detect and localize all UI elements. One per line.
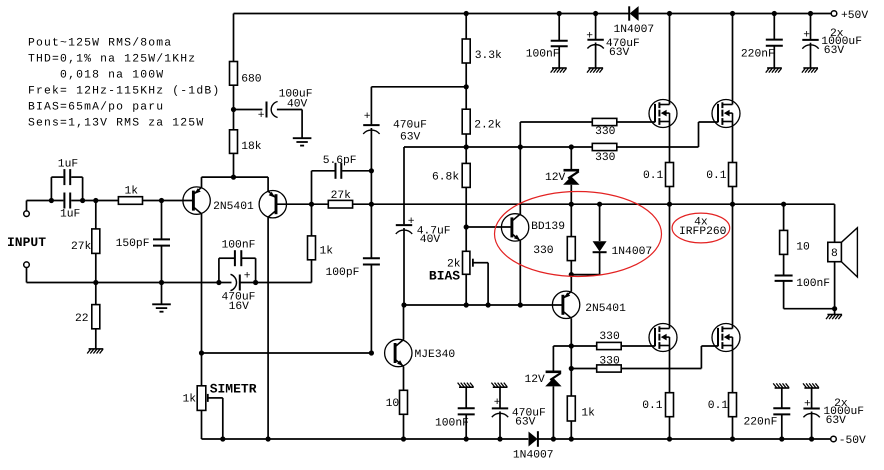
svg-text:Sens=1,13V RMS za 125W: Sens=1,13V RMS za 125W [28,117,204,129]
svg-text:2.2k: 2.2k [474,119,501,132]
wire: 1k to -50V rail [570,421,572,439]
svg-text:+: + [494,397,501,409]
svg-text:27k: 27k [331,189,352,202]
node: NFB caps left [216,280,221,285]
resistor 2.2k [462,109,470,134]
ground (22R) [89,348,104,350]
wire: 18k to emitter rail [233,153,235,177]
diode 1N4007 (limiter) [599,204,601,241]
capacitor 470uF 63V (bootstrap) [370,87,372,125]
wire: MJE340 emitter to 10R [403,366,405,390]
node: MJE340 10R on rail [401,436,406,441]
wire: riser to upper 330 (gate M1) [519,122,521,147]
node: 220nF on -50V rail [779,436,784,441]
svg-text:100pF: 100pF [326,267,360,279]
node: emitter rail / 18k [231,175,236,180]
wire: Q2 emitter [267,177,269,191]
wire: input signal line [27,200,64,202]
ground (220nF bottom) [775,387,790,389]
ground (1000uF bottom) [804,387,819,389]
svg-text:+: + [364,111,371,123]
wire: input return / NFB shunt line [27,282,219,284]
wire: 6.8k to BD139 base node [465,187,467,251]
svg-text:1N4007: 1N4007 [612,246,653,258]
transistor Q2 2N5401 (feedback) [259,191,286,218]
mosfet M1 IRFP260 (upper left) [669,14,671,105]
resistor 0.1 (M4 source) [729,393,737,417]
diode D3 1N4007 in -50V rail [529,432,538,447]
wire: BD139 collector [519,147,521,215]
wire: NFB line to caps [256,282,312,284]
resistor 330 (gate M1) [592,118,617,125]
mosfet M4 IRFP260 (lower right) [732,204,734,328]
resistor 1k (series input) [118,197,142,205]
svg-text:5.6pF: 5.6pF [323,155,357,167]
node: MJE340 collector / 4.7uF [401,302,406,307]
transistor MJE340 (VAS) [385,339,412,366]
wire: +50V top rail (right segment to terminal) [639,13,832,15]
resistor 6.8k [465,147,467,163]
node: feedback node (Q2 base) [309,202,314,207]
svg-text:INPUT: INPUT [7,235,46,250]
svg-text:2N5401: 2N5401 [213,201,254,213]
resistor 10 (MJE340 emitter) [400,390,408,414]
node: lower gate line A [569,343,574,348]
svg-text:1N4007: 1N4007 [614,24,655,36]
capacitor 4.7uF 40V [396,224,412,226]
svg-text:0.1: 0.1 [706,170,727,182]
resistor 10 (zobel) [783,204,785,230]
svg-text:+: + [804,399,811,411]
svg-text:470uF: 470uF [393,119,427,131]
node: 470uF top on rail [593,11,598,16]
terminal input lower [24,262,30,268]
wire: Q2 base to feedback node [276,203,311,205]
node: 680/18k/100uF junction [231,107,236,112]
svg-text:1N4007: 1N4007 [513,450,554,462]
capacitor 100nF (parallel with 470uF NFB) [218,258,220,282]
node: comp cap / MJE340 base [369,350,374,355]
terminal +50V [831,11,837,17]
svg-text:+: + [803,30,810,42]
svg-text:680: 680 [241,74,262,86]
capacitor 1uF (upper of parallel pair) [50,177,52,200]
node: 470uF on -50V rail [497,436,502,441]
svg-text:0,018 na 100W: 0,018 na 100W [28,69,164,81]
svg-text:63V: 63V [824,45,845,57]
node: zener2 on rail [551,436,556,441]
capacitor 470uF 16V (NFB, in line) [219,282,232,284]
wire: upper input terminal to signal line [26,201,28,211]
capacitor 2x1000uF 63V (-50V) [811,388,813,408]
node: bootstrap junction [464,84,469,89]
wire: 2.2k to rail147 [465,134,467,147]
svg-text:BIAS=65mA/po paru: BIAS=65mA/po paru [28,100,164,113]
node: NFB caps right [253,280,258,285]
capacitor 100uF 40V (decoupling) [234,109,263,111]
svg-text:+: + [258,110,265,122]
node: 22R top [93,280,98,285]
svg-text:2N5401: 2N5401 [585,303,626,315]
svg-text:Frek= 12Hz-115KHz (-1dB): Frek= 12Hz-115KHz (-1dB) [28,84,220,97]
red ellipse (limiter highlight) [495,192,662,277]
transistor Q4 2N5401 (driver) [570,275,572,292]
svg-text:330: 330 [599,331,620,343]
wire: zobel bottom to speaker ground [784,308,835,310]
node: 1000uF top on rail [808,11,813,16]
capacitor 5.6pF (across 27k) [311,171,313,204]
svg-text:27k: 27k [71,240,92,253]
wire: 3.3k to 2.2k [465,63,467,109]
wire: -50V bottom rail (left segment) [202,438,529,440]
node: zobel on output rail [781,202,786,207]
svg-text:1k: 1k [183,393,197,406]
diode D1 1N4007 in +50V rail [628,6,630,20]
svg-text:100nF: 100nF [526,49,560,61]
wire: BD139 emitter to drive line [519,240,521,305]
wire: 1k to Q1 base [143,200,194,202]
wire: 2k bottom to drive line [465,274,467,305]
svg-text:Pout~125W RMS/8oma: Pout~125W RMS/8oma [28,36,172,49]
resistor 0.1 (M1 source) [666,163,674,187]
node: 100nF top on rail [557,11,562,16]
wire: VAS input line [202,352,372,354]
wire: lower input terminal to return line [26,268,28,283]
svg-text:63V: 63V [609,47,630,59]
svg-text:12V: 12V [545,172,566,184]
node: 2k bottom [464,302,469,307]
node: 5.6pF right [369,168,374,173]
capacitor 100pF (compensation) [363,257,380,259]
terminal input upper [24,211,30,217]
node: upper drive rail / 2.2k-6.8k [464,144,469,149]
red ellipse + label 4x IRFP260 [672,213,730,243]
terminal -50V [831,436,837,442]
ground (100nF top) [552,67,567,69]
zener 12V (lower gate clamp) [552,346,554,372]
node: 1000uF on -50V rail [809,436,814,441]
svg-text:10: 10 [386,398,400,410]
wire: Q1 collector down to VAS line [201,214,203,353]
wire: feedback node to 27k [312,203,329,205]
node: lower gate line B [569,366,574,371]
svg-text:63V: 63V [826,415,847,427]
node: speaker ground [832,306,837,311]
node: zener Z1 top [569,144,574,149]
wire: emitter rail of diff pair [202,176,269,178]
ground (220nF top) [767,67,782,69]
transistor BD139 [501,214,528,241]
resistor 330 (gate M2) [592,143,617,150]
wire: lower gate line to 330 (M3) [553,345,596,347]
node: BD139 base junction [464,224,469,229]
mosfet M3 IRFP260 (lower left) [669,204,671,328]
resistor 330 (gate M3) [597,342,622,349]
resistor 27k (feedback) [328,200,352,208]
node: M4 0.1 on rail [730,436,735,441]
wire: 10R to -50V rail [403,414,405,439]
wire: 330 to M4 gate (stepped) [621,368,701,370]
capacitor 100nF (zobel) [783,254,785,275]
svg-text:8: 8 [831,248,838,260]
node: M1 source on output rail [667,202,672,207]
ground (470uF bottom) [493,386,508,388]
node: M2 source on output rail [730,202,735,207]
node: Q2 collector on rail [266,436,271,441]
capacitor 150pF [161,201,163,240]
svg-text:BD139: BD139 [531,221,565,233]
svg-text:40V: 40V [287,98,308,110]
wire: SIMETR bottom to rail [201,410,203,439]
node: output rail / 1N4007-limiter [597,202,602,207]
resistor 22 [95,283,97,305]
svg-text:18k: 18k [241,140,262,153]
ground (speaker) [834,309,836,315]
resistor 0.1 (M2 source) [729,163,737,187]
node: output rail / 330-limiter [569,202,574,207]
svg-text:16V: 16V [229,301,250,313]
wire: -50V bottom rail (right segment) [538,438,830,440]
svg-text:100nF: 100nF [796,278,830,290]
svg-text:220nF: 220nF [741,49,775,61]
svg-text:3.3k: 3.3k [475,49,502,62]
node: BD139 collector on rail147 [518,144,523,149]
speaker 8 ohm [834,204,836,242]
node: M2 drain on +50V rail [730,11,735,16]
svg-text:+: + [586,30,593,42]
wire: BD139 base [466,226,511,228]
svg-text:330: 330 [595,126,616,138]
resistor 330 (gate M4) [571,368,596,370]
resistor 1k (lower gate bleed) [567,396,575,421]
svg-text:+: + [408,216,415,228]
svg-text:1k: 1k [320,244,334,257]
svg-text:0.1: 0.1 [642,400,663,412]
zener 12V (upper gate clamp) [570,147,572,170]
svg-text:-50V: -50V [839,435,866,447]
ground (100nF bottom) [459,386,474,388]
svg-text:150pF: 150pF [116,238,150,250]
svg-text:220nF: 220nF [744,417,778,429]
trimmer 1k SIMETR [201,353,203,386]
node: M1 drain on +50V rail [667,11,672,16]
node: M3 0.1 on rail [667,436,672,441]
wire: rail to 3.3k [465,14,467,40]
svg-text:100nF: 100nF [435,417,469,429]
svg-text:100nF: 100nF [222,240,256,252]
node: 150pF bottom [159,280,164,285]
wire: lower drive line [404,304,563,306]
wire: bootstrap top link [371,86,466,88]
mosfet M2 IRFP260 (upper right) [732,14,734,105]
wire: MJE340 collector [403,305,405,340]
capacitor 100nF (+50V decoupling) [558,14,560,41]
node: Q1 collector / SIMETR [199,350,204,355]
svg-text:63V: 63V [400,132,421,144]
svg-text:1k: 1k [125,184,139,197]
node: 150pF junction [159,198,164,203]
wire: 330 to M2 gate (stepped) [617,146,699,148]
node: 1k lower on rail [569,436,574,441]
svg-text:+: + [244,270,251,282]
node: 27k junction [93,198,98,203]
node: input cap right [80,198,85,203]
wire: 100uF to ground [301,110,303,138]
resistor 27k (input bias) [95,201,97,229]
wire: rail corner down to 680 [233,14,235,62]
resistor 330 (limiter) [570,204,572,236]
capacitor 220nF (-50V) [781,388,783,408]
svg-text:1k: 1k [581,407,595,420]
svg-text:63V: 63V [515,417,536,429]
header: amplifier specs text block [28,36,220,129]
svg-text:SIMETR: SIMETR [210,382,257,397]
svg-text:10: 10 [796,241,810,253]
resistor 680 [230,62,238,86]
svg-text:+50V: +50V [841,10,868,22]
wire: 680 to 18k [233,85,235,130]
svg-text:22: 22 [75,313,89,325]
capacitor 100nF (-50V decoupling) [465,387,467,408]
resistor 1k (NFB shunt) [311,204,313,236]
node: +50V rail / 3.3k [464,11,469,16]
node: 220nF top on rail [772,11,777,16]
wire: 330 to M1 gate [617,121,655,123]
resistor 18k [230,130,238,154]
capacitor 470uF 63V (-50V decoupling) [499,387,501,408]
wire: +50V top rail (left segment to diode) [234,13,630,15]
node: input cap left [49,198,54,203]
svg-text:40V: 40V [420,234,441,246]
svg-text:1uF: 1uF [60,208,80,220]
wire: 4.7uF top branch [403,147,405,224]
transistor Q1 2N5401 (input) [183,187,210,214]
node: 100nF on -50V rail [464,436,469,441]
ground (150pF / signal return) [161,283,163,304]
svg-text:330: 330 [595,152,616,164]
capacitor 220nF (+50V) [773,14,775,40]
svg-text:12V: 12V [525,374,546,386]
ground (1000uF top) [803,67,818,69]
wire: 330 to M3 gate [621,345,655,347]
node: output rail / comp column [369,202,374,207]
node: limiter / Q4 emitter [569,272,574,277]
wire: Q1 emitter [201,177,203,187]
resistor 0.1 (M3 source) [666,393,674,417]
svg-text:6.8k: 6.8k [432,171,459,184]
resistor 3.3k [462,39,470,63]
ground (100uF) [293,137,312,139]
svg-text:IRFP260: IRFP260 [679,226,727,238]
trimmer 2k BIAS [463,251,470,274]
wire: output rail (27k to speaker corner) [353,203,835,205]
svg-text:BIAS: BIAS [429,269,460,284]
capacitor 470uF 63V (+50V decoupling) [595,14,597,40]
node: SIMETR wiper on rail [220,436,225,441]
wire: Q2 collector to -50V rail [267,218,269,439]
svg-text:1uF: 1uF [58,158,78,170]
svg-text:330: 330 [599,355,620,367]
svg-text:330: 330 [533,245,554,257]
svg-text:0.1: 0.1 [643,170,664,182]
svg-text:0.1: 0.1 [708,400,729,412]
svg-text:THD=0,1% na 125W/1KHz: THD=0,1% na 125W/1KHz [28,52,196,65]
svg-text:MJE340: MJE340 [415,349,456,361]
node: BD139 emitter [518,302,523,307]
capacitor 1uF (lower of parallel pair) [63,193,65,209]
ground (470uF top) [588,67,603,69]
capacitor 2x1000uF 63V (+50V) [810,14,812,40]
node: 2k wiper [486,302,491,307]
wire: upper gate drive rail [404,146,592,148]
wire: Q4 collector to lower gate node [570,318,572,396]
